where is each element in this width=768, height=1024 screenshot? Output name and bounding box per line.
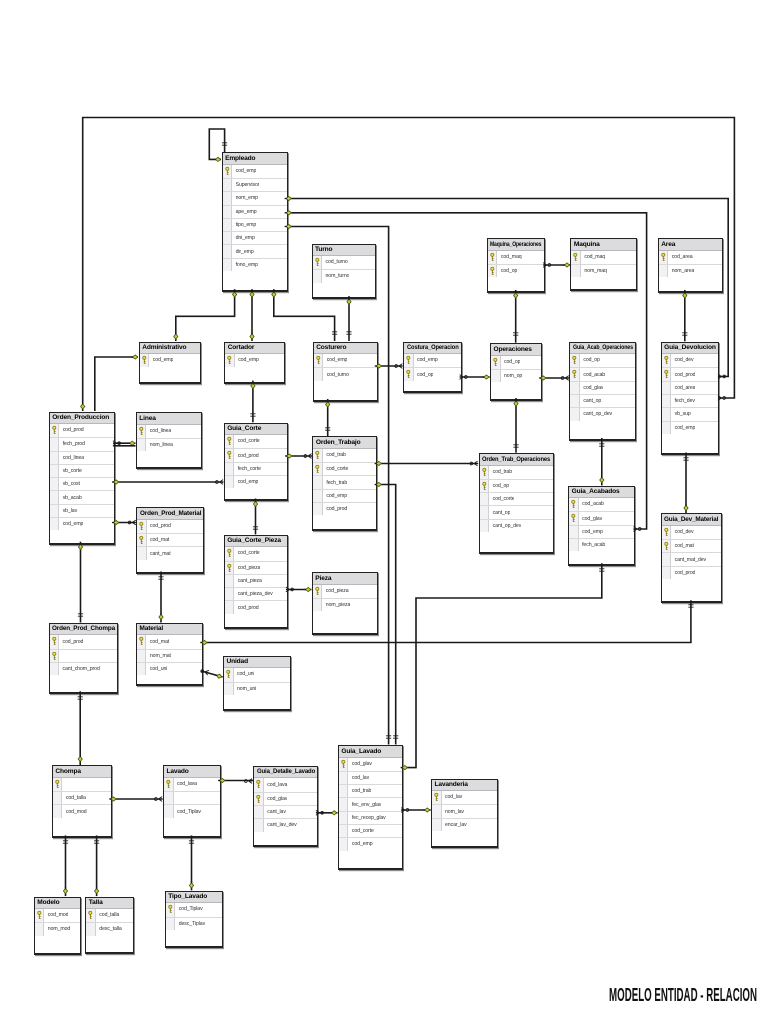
table Pieza [312,572,378,635]
table Guia_Lavado [338,745,403,870]
table Guia_Acabados [568,486,635,567]
relationship Empleado self reference [209,129,227,161]
relationship Guia_Acab_Operaciones-Guia_Acabados [599,438,604,485]
relationship Chompa-Modelo [63,835,68,896]
relationship Operaciones-Orden_Trab_Operaciones [513,398,518,453]
relationship Orden_Produccion-Orden_Prod_Material [112,520,136,525]
relationship Orden_Prod_Material-Material [158,572,163,623]
table Tipo_Lavado [165,891,223,948]
table Operaciones [490,343,542,401]
table Turno [312,244,377,300]
table Area [658,238,723,293]
relationship Material-Guia_Dev_Material [200,600,693,644]
relationship Empleado-Cortador [250,289,254,341]
table Unidad [223,656,291,712]
relationship Empleado-Guia_Devolucion cod_emp [285,196,729,379]
table Costura_Operacion [403,342,462,394]
table Talla [85,897,133,954]
table Cortador [224,342,285,384]
table Lavanderia [431,779,498,849]
table Modelo [34,897,81,956]
table Guia_Corte_Pieza [224,535,288,629]
table Administrativo [139,342,201,384]
relationship Costura_Operacion-Operaciones [460,375,490,380]
table Orden_Trabajo [312,436,377,531]
table Costurero [313,342,378,402]
relationship Orden_Produccion-Administrativo [95,355,138,411]
relationship Guia_Acabados-Guia_Lavado [401,563,605,770]
relationship Cortador-Guia_Corte [250,381,255,423]
relationship Orden_Produccion-Guia_Corte [112,480,224,485]
relationship Maquina_Operaciones-Operaciones [513,290,518,343]
relationship Costurero-Orden_Trabajo [325,399,330,436]
table Material [136,623,203,686]
table Guia_Corte [224,423,288,502]
relationship Chompa-Talla [94,835,99,896]
relationship Lavado-Guia_Detalle_Lavado [218,778,253,783]
relationship Guia_Corte-Guia_Corte_Pieza [253,499,258,535]
table Linea [136,412,202,469]
relationship Lavado-Tipo_Lavado [189,835,194,890]
diagram title [609,985,757,1006]
relationship Guia_Devolucion-Guia_Dev_Material [683,453,688,514]
table Guia_Detalle_Lavado [253,766,318,847]
relationship Orden_Trabajo-Orden_Trab_Operaciones [375,461,479,466]
relationship Area-Guia_Devolucion [682,290,687,341]
relationship Orden_Trabajo-Guia_Lavado [375,482,399,744]
table Chompa [52,765,112,838]
relationship Guia_Detalle_Lavado-Guia_Lavado [316,810,338,815]
relationship Empleado-Guia_Acabados cod_emp [285,211,647,532]
relationship Costurero-Costura_Operacion [375,364,403,369]
relationship Empleado-Guia_Lavado cod_emp [285,224,392,744]
table Guia_Dev_Material [661,513,722,603]
relationship Maquina_Operaciones-Maquina [543,263,570,268]
table Orden_Prod_Material [136,507,204,574]
relationship Guia_Lavado-Lavanderia [401,808,431,813]
relationship Guia_Corte_Pieza-Pieza [286,587,312,592]
table Orden_Trab_Operaciones [479,453,554,554]
table Empleado [222,152,288,292]
relationship Orden_Produccion-Orden_Prod_Chompa [78,542,83,623]
relationship Operaciones-Guia_Acab_Operaciones [539,376,569,381]
table Guia_Acab_Operaciones [569,342,636,441]
table Maquina_Operaciones [487,238,545,293]
relationship Orden_Produccion-Guia_Devolucion cod_prod [81,118,735,412]
relationship Empleado-Costurero [272,289,338,341]
relationship Chompa-Lavado [109,797,162,802]
relationship Orden_Produccion-Linea b [113,445,135,447]
table Guia_Devolucion [661,342,719,456]
relationship Empleado-Administrativo [174,289,237,341]
relationship Material-Unidad [200,668,222,678]
relationship Orden_Prod_Chompa-Chompa [78,691,83,765]
relationship Turno-Costurero [346,296,351,341]
table Maquina [570,238,637,291]
relationship Guia_Corte-Orden_Trabajo [285,454,312,459]
relationship Orden_Produccion-Linea [113,441,136,446]
table Orden_Prod_Chompa [49,623,119,694]
table Lavado [163,765,221,838]
table Orden_Produccion [49,412,115,545]
